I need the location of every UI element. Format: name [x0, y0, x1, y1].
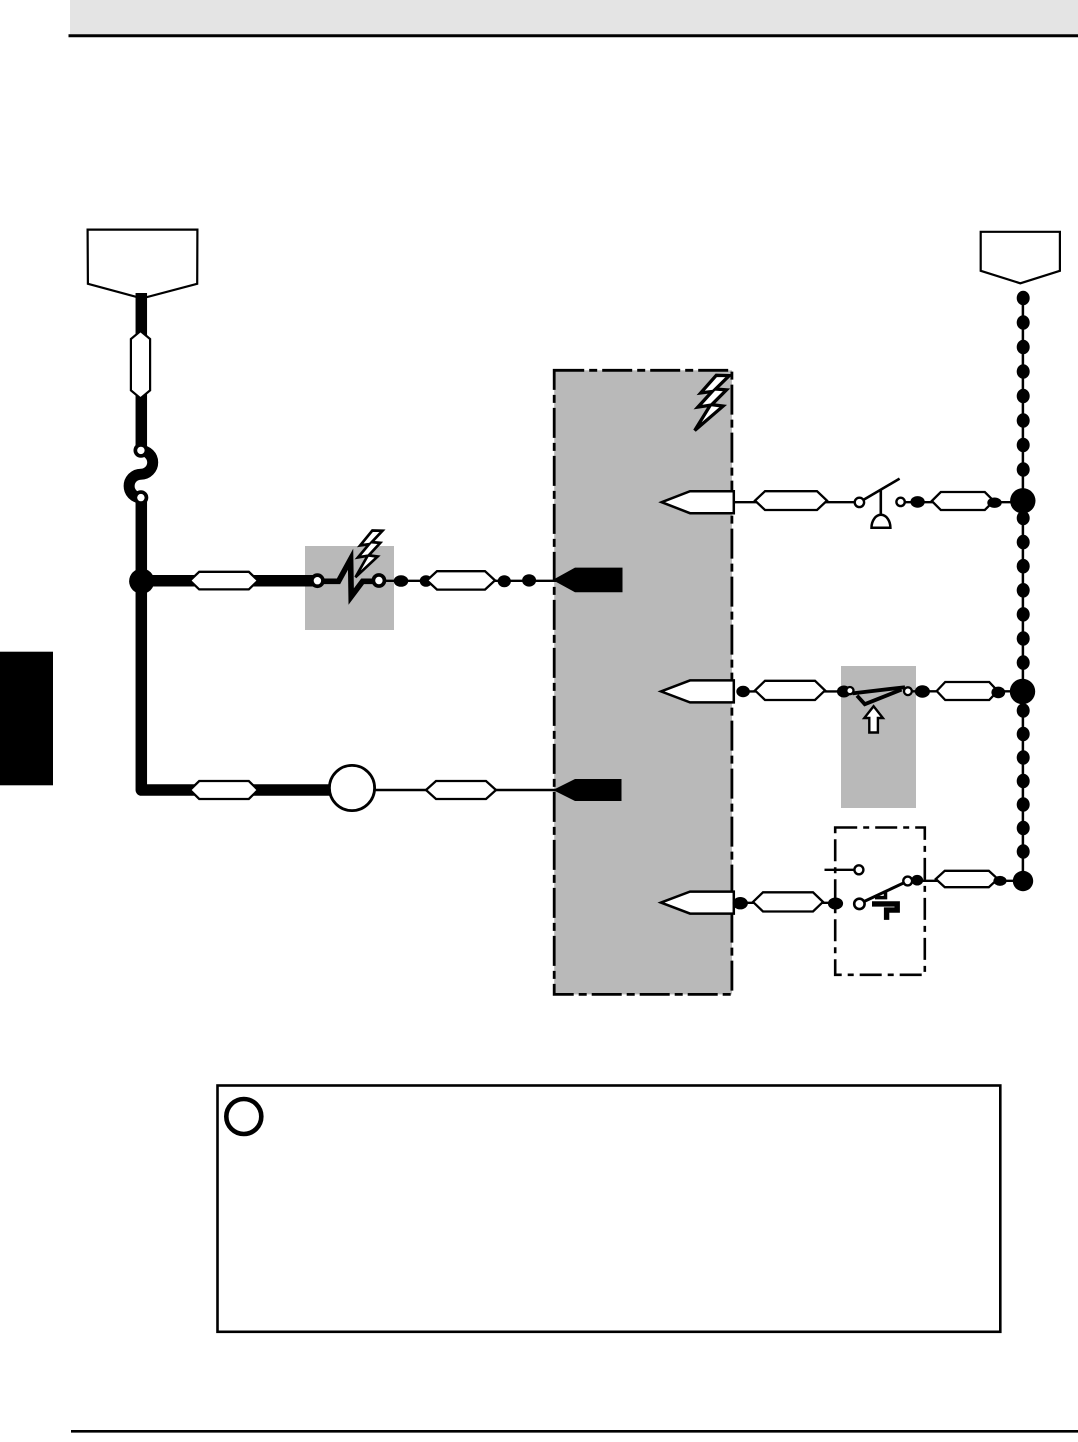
wire: main feed continues down and to lower branch: [141, 495, 331, 790]
connector C (branch 3 left): [753, 892, 823, 911]
black terminal arrow into ECU (upper): [553, 568, 623, 593]
wire: branch 3 right: [911, 880, 1023, 882]
relay coil stub: [825, 869, 855, 871]
page header band: [70, 0, 1078, 34]
note number circle: [226, 1099, 261, 1134]
connector bead: [911, 875, 923, 886]
rail junction node (branch 2): [1010, 679, 1035, 704]
connector C (second, upper branch): [427, 571, 495, 589]
connector bead: [915, 685, 930, 697]
damage highlight box: [305, 546, 394, 630]
black terminal arrow into ECU (lower): [553, 779, 622, 801]
switch plunger stem: [879, 490, 882, 515]
connector bead at hexagon tip: [420, 575, 433, 587]
wire: branch 1 right: [905, 501, 1016, 503]
connector bead: [987, 498, 1001, 508]
wire: branch 2 right: [912, 690, 1016, 692]
momentary switch contact (right): [904, 687, 912, 695]
small lightning bolt at damage: [355, 531, 382, 578]
momentary switch lever: [853, 687, 906, 693]
connector C (second, lower branch): [426, 781, 496, 799]
wire: branch to damaged point (thick): [141, 575, 318, 587]
connector C (branch 3 right): [936, 871, 998, 887]
white terminal arrow out of ECU (branch 1): [662, 491, 734, 513]
ECU gray box (dash-dot border): [554, 370, 732, 994]
terminal at damage (left): [310, 573, 325, 588]
wire: right rail (thin line): [1022, 300, 1025, 881]
connector bead: [993, 876, 1006, 886]
connector bead: [733, 897, 748, 909]
connector C (in-line, lower branch): [190, 781, 258, 799]
wire: branch 1 left: [734, 501, 856, 503]
connector bead before relay: [828, 898, 843, 910]
connector bead: [991, 687, 1005, 699]
junction node: [129, 569, 154, 594]
switch highlight box: [841, 666, 916, 808]
relay coil stub terminal: [854, 865, 863, 874]
connector: right harness pentagon: [981, 232, 1060, 283]
momentary switch wedge: [857, 690, 902, 705]
relay mechanical linkage (staircase): [872, 904, 897, 920]
switch contact (left): [855, 498, 864, 507]
white terminal arrow out of ECU (branch 2): [661, 680, 734, 702]
relay box (dash-dot border): [835, 828, 925, 975]
relay lever wedge: [875, 891, 886, 898]
wire: main feed (vertical, from pentagon): [136, 293, 148, 450]
relay contact (upper): [903, 877, 912, 886]
rail corner node (branch 3): [1013, 871, 1033, 891]
connector bead: [522, 574, 536, 586]
connector C (branch 2 right): [937, 682, 998, 700]
open-circuit zigzag (damaged wire): [323, 559, 373, 596]
splice terminal upper: [134, 443, 149, 458]
switch plunger dome: [872, 515, 891, 528]
connector C (branch 1 right): [932, 492, 994, 510]
wire: branch 2 left: [749, 690, 848, 692]
white terminal arrow out of ECU (branch 3): [661, 892, 734, 914]
note box: [218, 1086, 1001, 1332]
wire: thin run lower branch: [375, 789, 557, 791]
wire: thin run to ECU (upper branch): [386, 580, 556, 582]
momentary switch contact (left): [846, 687, 853, 694]
relay contact (lower): [854, 899, 864, 909]
splice terminal lower: [134, 490, 149, 505]
terminal at damage (right): [372, 573, 387, 588]
footer rule: [71, 1430, 1078, 1433]
connector bead: [498, 575, 511, 587]
wire: branch 3 left: [746, 902, 857, 904]
left edge chapter tab: [0, 652, 53, 786]
connector C (branch 2 left): [755, 681, 825, 700]
connector bead: [736, 686, 750, 697]
connector bead before switch: [837, 686, 851, 698]
connector: left harness pentagon: [88, 230, 198, 299]
connector bead: [394, 575, 409, 587]
connector bead: [910, 496, 924, 508]
lightning bolt inside ECU box: [695, 375, 730, 430]
coiled wire (S-curve): [129, 451, 153, 498]
connector C (in-line, upper branch): [190, 572, 258, 590]
rail junction node (branch 1): [1010, 488, 1035, 513]
fuse (vertical hexagon): [131, 331, 150, 398]
relay lever: [864, 883, 904, 902]
component circle (bulb/load): [329, 765, 374, 810]
rail wire dots: [1017, 291, 1030, 306]
switch lever (branch 1): [863, 479, 899, 500]
switch contact (right): [896, 498, 904, 506]
header rule: [69, 34, 1078, 37]
actuation up-arrow: [864, 706, 883, 732]
connector C (branch 1 left): [755, 491, 827, 510]
